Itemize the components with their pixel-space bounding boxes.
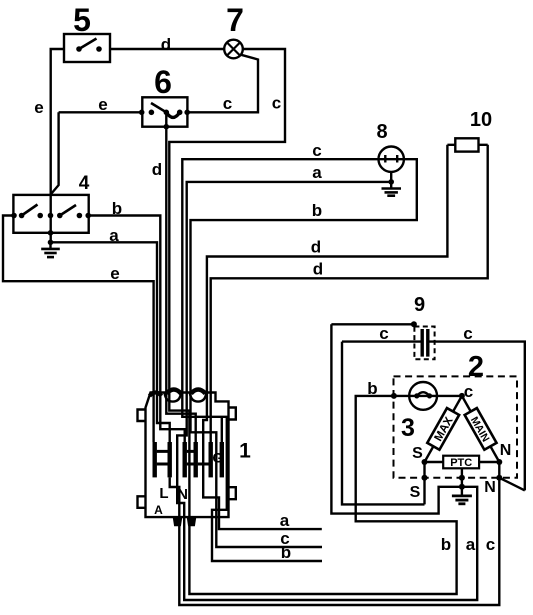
- svg-text:b: b: [281, 543, 291, 562]
- svg-text:d: d: [313, 260, 323, 279]
- svg-text:6: 6: [154, 64, 172, 100]
- wire d switch6 bottom to comp1: [165, 112, 167, 398]
- ground (motor): [452, 487, 472, 504]
- PTC relay: [425, 456, 500, 469]
- wire S to dashed edge: [423, 462, 425, 504]
- wire d comp10 left to comp1: [207, 145, 448, 398]
- wire b comp8 right to comp1: [191, 159, 417, 398]
- svg-text:9: 9: [414, 294, 425, 316]
- lamp H7: [224, 40, 243, 59]
- svg-text:e: e: [98, 95, 107, 114]
- svg-text:e: e: [110, 264, 119, 283]
- connector block X1 outline: [146, 393, 229, 518]
- wire lamp7 right down to comp1 (c): [169, 49, 285, 398]
- wire ground node to capacitor case node: [331, 324, 462, 513]
- compressor M2 dashed box: [394, 376, 518, 477]
- comp1 pin4: [194, 442, 198, 477]
- wire a comp8 ground to comp1: [187, 182, 392, 398]
- svg-text:G: G: [212, 450, 223, 466]
- wire a ground junction to comp1: [51, 242, 158, 398]
- comp1 top bushing 2: [191, 390, 205, 394]
- svg-text:c: c: [464, 382, 473, 401]
- svg-text:N: N: [177, 486, 188, 503]
- svg-text:c: c: [379, 324, 388, 343]
- winding MAIN (c to N): [462, 396, 499, 462]
- comp1 internal wire lamp to inner U exit: [169, 398, 189, 517]
- comp1 pin5: [209, 442, 213, 477]
- node on dashed edge (ground): [459, 475, 465, 481]
- comp1 left tab lower: [138, 496, 146, 508]
- comp1 top bushing 3: [150, 393, 162, 397]
- svg-text:A: A: [154, 503, 163, 517]
- wire capacitor left plate to S branch: [342, 340, 421, 342]
- wire b comp1 to protector (long path): [189, 396, 456, 594]
- wire switch4 center to ground junction: [50, 216, 52, 243]
- node c (winding common): [459, 393, 465, 399]
- wire e to switch6 left: [59, 111, 143, 113]
- svg-text:a: a: [466, 535, 476, 554]
- svg-text:b: b: [367, 379, 377, 398]
- thermal protector 3 circle: [409, 382, 437, 410]
- svg-text:b: b: [312, 201, 322, 220]
- svg-text:a: a: [312, 163, 322, 182]
- wire e switch4 left to comp1: [3, 216, 154, 399]
- comp1 internal wire d6 to pin4: [166, 398, 195, 442]
- wire e-link down to switch4 actuator: [51, 112, 59, 194]
- comp1 right tab upper: [229, 408, 236, 420]
- svg-text:L: L: [159, 485, 168, 502]
- comp1 internal wire a to pin2: [157, 398, 170, 442]
- svg-text:c: c: [223, 94, 232, 113]
- comp1 pin2: [168, 442, 172, 477]
- svg-text:d: d: [161, 35, 171, 54]
- wire N to dashed edge: [498, 462, 500, 478]
- comp1 pin6: [220, 442, 224, 477]
- winding MAX (c to S): [425, 396, 462, 462]
- wire PTC center to ground node: [461, 468, 463, 487]
- wire lamp7 diagonal to switch6 (c): [187, 55, 258, 113]
- svg-text:c: c: [272, 94, 281, 113]
- comp1 internal wire b to pin3: [160, 398, 184, 442]
- wire c N to comp1 (bottom U): [179, 478, 499, 605]
- svg-text:PTC: PTC: [450, 457, 472, 469]
- svg-text:c: c: [312, 141, 321, 160]
- ground (switch4): [41, 242, 60, 257]
- comp1 internal wire d10a to stub b: [203, 398, 322, 529]
- wire c to capacitor case (node): [331, 323, 414, 325]
- svg-text:N: N: [484, 479, 496, 496]
- comp1 internal wire pin2 to outer U exit: [170, 477, 180, 517]
- comp1 internal wire b8 to stub c: [191, 398, 323, 547]
- wire S to capacitor left: [342, 342, 425, 505]
- wire d switch5 to lamp7: [110, 48, 224, 50]
- svg-text:a: a: [109, 226, 119, 245]
- svg-text:5: 5: [73, 2, 91, 38]
- svg-text:3: 3: [401, 414, 415, 442]
- switch S5 box: [64, 34, 110, 62]
- ground (comp8): [382, 172, 402, 196]
- svg-text:10: 10: [470, 109, 492, 131]
- svg-text:e: e: [34, 98, 43, 117]
- wire capacitor right plate to N branch: [430, 342, 525, 491]
- comp1 bottom bushing 2: [188, 517, 196, 525]
- thermal fuse F10: [447, 138, 487, 151]
- switch S6 box: [139, 97, 190, 129]
- comp1 internal wire a8 to middle U exit: [177, 398, 187, 517]
- wire c comp8 to comp1: [182, 159, 378, 398]
- comp1 internal wire e to pin1: [152, 398, 154, 442]
- capacitor C9 plates: [422, 329, 428, 357]
- svg-text:2: 2: [468, 351, 484, 383]
- node N: [496, 459, 502, 465]
- svg-text:c: c: [463, 324, 472, 343]
- svg-text:b: b: [112, 199, 122, 218]
- svg-text:4: 4: [79, 173, 90, 194]
- svg-text:8: 8: [376, 121, 387, 143]
- svg-text:d: d: [311, 238, 321, 257]
- svg-text:S: S: [410, 484, 421, 501]
- svg-text:d: d: [152, 160, 162, 179]
- svg-text:a: a: [280, 511, 290, 530]
- heater H8 circle: [379, 147, 404, 172]
- wire b switch4 to comp1: [88, 216, 160, 399]
- comp1 pin3: [183, 442, 187, 477]
- node S: [422, 459, 428, 465]
- wire N diagonal to capacitor right: [499, 478, 525, 491]
- capacitor C9 dashed case: [414, 327, 434, 360]
- svg-text:N: N: [500, 442, 512, 459]
- wire a ground node to comp1 (bottom U): [184, 487, 477, 600]
- comp1 bottom bushing 1: [174, 517, 182, 525]
- comp1 pin1: [153, 442, 157, 477]
- thermostat S4 box: [11, 195, 91, 233]
- svg-text:7: 7: [226, 2, 244, 38]
- comp1 internal wire pin6 feed: [221, 417, 223, 442]
- comp1 internal wire c8 to pin6: [182, 398, 322, 561]
- comp1 left tab upper: [138, 410, 146, 422]
- comp1 pin links: [157, 451, 209, 464]
- comp1 top bushing 1: [167, 390, 182, 394]
- svg-text:1: 1: [239, 440, 251, 463]
- comp1 right tab lower: [229, 487, 236, 499]
- wire protector to node c: [437, 395, 462, 397]
- svg-text:c: c: [486, 535, 495, 554]
- svg-text:b: b: [441, 535, 451, 554]
- wire d comp10 right to comp1: [211, 145, 488, 442]
- svg-text:S: S: [412, 445, 423, 462]
- wire switch5 left to switch4 actuator: [51, 49, 64, 216]
